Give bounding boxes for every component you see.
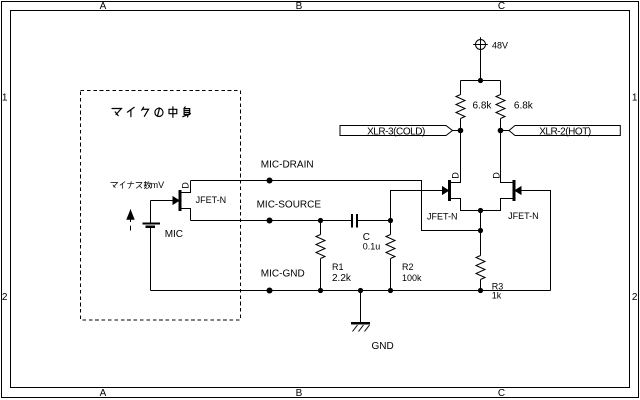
node XLR-3 junction xyxy=(458,128,464,134)
svg-text:R1: R1 xyxy=(332,262,344,272)
wire common source to drain-link xyxy=(480,211,482,231)
node MIC-DRAIN dot xyxy=(267,178,273,184)
svg-text:JFET-N: JFET-N xyxy=(427,211,458,221)
node bridge junction xyxy=(478,78,483,83)
svg-text:B: B xyxy=(296,1,303,12)
resistor R1 2.2k xyxy=(316,221,325,291)
svg-text:MIC-DRAIN: MIC-DRAIN xyxy=(261,159,314,170)
svg-text:JFET-N: JFET-N xyxy=(508,211,538,221)
svg-text:C: C xyxy=(498,1,505,12)
node R3 bottom junction xyxy=(478,288,483,293)
wire MIC-GND rail xyxy=(151,290,551,292)
svg-text:2: 2 xyxy=(632,292,638,303)
svg-text:JFET-N: JFET-N xyxy=(196,195,227,205)
svg-text:XLR-3(COLD): XLR-3(COLD) xyxy=(367,126,425,137)
svg-text:100k: 100k xyxy=(402,273,422,283)
svg-text:B: B xyxy=(296,388,303,399)
svg-text:2: 2 xyxy=(2,292,8,303)
svg-text:6.8k: 6.8k xyxy=(514,100,534,111)
svg-text:C: C xyxy=(498,388,505,399)
svg-text:MIC-SOURCE: MIC-SOURCE xyxy=(257,199,322,210)
svg-text:1k: 1k xyxy=(492,291,502,301)
node R2 bottom junction xyxy=(388,288,393,293)
node GND junction xyxy=(358,288,363,293)
wire Q2 gate xyxy=(391,191,443,221)
node MIC-GND dot xyxy=(267,288,273,294)
ground symbol xyxy=(352,291,370,332)
svg-text:48V: 48V xyxy=(492,40,508,50)
wire top bridge xyxy=(461,80,501,82)
svg-text:R2: R2 xyxy=(402,262,414,272)
resistor 6.8k (right) xyxy=(496,81,505,131)
wire MIC-SOURCE rail xyxy=(191,220,353,222)
svg-text:D: D xyxy=(180,182,190,189)
svg-text:0.1u: 0.1u xyxy=(363,241,381,251)
svg-text:1: 1 xyxy=(2,92,8,103)
transistor Q3 JFET-N xyxy=(481,131,522,211)
svg-text:GND: GND xyxy=(372,341,394,352)
wire 48V to bridge xyxy=(480,50,482,81)
node XLR-2 junction xyxy=(498,128,504,134)
transistor Q2 JFET-N xyxy=(443,131,481,211)
electret capsule MIC xyxy=(143,201,160,291)
svg-text:A: A xyxy=(100,1,107,12)
node MIC-SOURCE dot xyxy=(267,218,273,224)
wire Q3 gate return xyxy=(521,191,551,291)
comment text マイクの中身 (hand-drawn glyphs) xyxy=(112,107,190,117)
svg-text:6.8k: 6.8k xyxy=(473,100,493,111)
svg-text:1: 1 xyxy=(632,92,638,103)
svg-text:A: A xyxy=(100,388,107,399)
power symbol 48V xyxy=(473,37,488,52)
node drain-link junction xyxy=(478,228,483,233)
svg-text:XLR-2(HOT): XLR-2(HOT) xyxy=(539,126,591,137)
node R1 top junction xyxy=(318,218,323,223)
node R1 bottom junction xyxy=(318,288,323,293)
node common source junction xyxy=(478,208,483,213)
wire MIC-DRAIN rail xyxy=(191,181,481,231)
svg-text:MIC-GND: MIC-GND xyxy=(261,269,305,280)
capacitor C 0.1u xyxy=(352,215,391,228)
sound input arrow xyxy=(127,210,134,231)
resistor R3 1k xyxy=(476,231,485,291)
node C/R2/gate junction xyxy=(388,218,393,223)
dashed enclosure: microphone internals box xyxy=(81,91,241,321)
svg-text:D: D xyxy=(492,172,502,179)
svg-text:mV: mV xyxy=(151,180,165,190)
comment text マイナス数mV (hand-drawn glyphs + latin) xyxy=(111,181,151,188)
resistor 6.8k (left) xyxy=(456,81,465,131)
svg-text:2.2k: 2.2k xyxy=(332,273,352,284)
svg-text:MIC: MIC xyxy=(165,229,183,240)
wire Q1 gate xyxy=(151,200,174,202)
connector XLR-2(HOT) xyxy=(501,126,621,136)
resistor R2 100k xyxy=(386,221,395,291)
svg-text:D: D xyxy=(450,172,460,179)
connector XLR-3(COLD) xyxy=(340,126,461,136)
transistor Q1 JFET-N xyxy=(173,181,191,221)
